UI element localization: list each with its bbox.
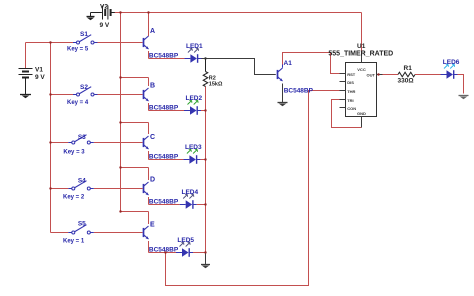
svg-text:B: B	[150, 83, 155, 90]
svg-text:R1: R1	[404, 65, 413, 72]
svg-text:LED5: LED5	[177, 237, 194, 244]
svg-text:Key = 1: Key = 1	[63, 238, 85, 244]
svg-text:9 V: 9 V	[100, 22, 110, 29]
svg-text:D: D	[150, 177, 155, 184]
svg-text:BC548BP: BC548BP	[149, 104, 179, 111]
svg-text:LED4: LED4	[182, 189, 199, 196]
svg-text:THR: THR	[347, 89, 355, 94]
svg-text:15kΩ: 15kΩ	[209, 82, 223, 88]
svg-text:Key = 3: Key = 3	[63, 149, 85, 155]
svg-text:CON: CON	[347, 106, 356, 111]
svg-text:VCC: VCC	[357, 67, 366, 72]
svg-text:RST: RST	[347, 72, 356, 77]
svg-text:A: A	[150, 28, 155, 35]
svg-text:555_TIMER_RATED: 555_TIMER_RATED	[328, 51, 393, 58]
svg-text:Key = 2: Key = 2	[63, 194, 85, 200]
svg-text:C: C	[150, 134, 155, 141]
svg-text:BC548BP: BC548BP	[149, 246, 179, 253]
svg-text:S5: S5	[78, 221, 86, 228]
svg-text:S2: S2	[80, 84, 88, 91]
svg-text:330Ω: 330Ω	[398, 78, 414, 85]
svg-text:OUT: OUT	[367, 73, 376, 78]
svg-text:LED2: LED2	[186, 95, 203, 102]
svg-text:S3: S3	[78, 134, 86, 141]
svg-text:U1: U1	[357, 43, 366, 50]
svg-text:BC548BP: BC548BP	[149, 198, 179, 205]
svg-text:BC548BP: BC548BP	[284, 87, 314, 94]
svg-text:9 V: 9 V	[35, 74, 45, 81]
svg-text:V2: V2	[100, 3, 108, 10]
svg-text:LED1: LED1	[186, 43, 203, 50]
svg-text:E: E	[150, 222, 155, 229]
svg-text:BC548BP: BC548BP	[149, 52, 179, 59]
svg-text:S1: S1	[80, 31, 88, 38]
svg-text:LED3: LED3	[185, 144, 202, 151]
svg-text:DIS: DIS	[347, 80, 354, 85]
svg-text:A1: A1	[284, 60, 293, 67]
svg-text:Key = 5: Key = 5	[67, 47, 89, 53]
svg-text:BC548BP: BC548BP	[149, 153, 179, 160]
svg-text:Key = 4: Key = 4	[67, 100, 89, 106]
svg-text:S4: S4	[78, 178, 86, 185]
svg-text:GND: GND	[357, 111, 366, 116]
svg-text:V1: V1	[35, 67, 43, 74]
svg-text:TRI: TRI	[347, 98, 353, 103]
svg-text:LED6: LED6	[443, 59, 460, 66]
